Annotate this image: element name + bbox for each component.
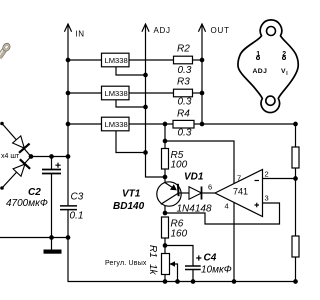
- OUT arrow: [198, 24, 205, 32]
- node ground: [49, 235, 54, 240]
- wire OUT to right rail: [202, 123, 296, 125]
- wire R5 bottom: [164, 169, 166, 183]
- pin2 wire: [263, 178, 296, 180]
- node R3-OUT: [200, 91, 205, 96]
- svg-text:4700мкФ: 4700мкФ: [6, 198, 48, 209]
- inverting input mark: [255, 180, 260, 182]
- node right rail pin2: [293, 176, 298, 181]
- svg-text:2: 2: [265, 170, 269, 179]
- wire R6 bottom: [164, 238, 166, 254]
- wire bridge plus: [2, 124, 31, 189]
- svg-text:0.3: 0.3: [178, 65, 192, 76]
- terminal AC upper: [0, 122, 4, 126]
- regulator U1 LM338: [102, 53, 130, 67]
- node bridge plus: [29, 154, 34, 159]
- svg-text:IN: IN: [76, 30, 85, 39]
- svg-text:R2: R2: [177, 44, 190, 55]
- TO-3 package: [238, 20, 298, 113]
- svg-text:R3: R3: [177, 77, 190, 88]
- svg-text:R1: R1: [147, 245, 158, 258]
- svg-text:10мкФ: 10мкФ: [201, 265, 232, 276]
- wire R2 to OUT: [193, 59, 203, 61]
- svg-text:6: 6: [208, 183, 212, 192]
- node wiper bottom: [175, 279, 180, 284]
- wire U3 adj stub: [116, 131, 146, 153]
- terminal AC lower: [0, 186, 4, 190]
- resistor right lower: [292, 236, 299, 257]
- resistor R4: [173, 120, 194, 128]
- svg-text:C2: C2: [28, 187, 41, 198]
- resistor R2: [174, 56, 193, 64]
- pin3 wire: [165, 203, 280, 224]
- node ADJ-U2: [143, 105, 148, 110]
- node R4-OUT: [200, 122, 205, 127]
- node R2-OUT: [200, 58, 205, 63]
- svg-text:4: 4: [225, 202, 229, 211]
- diode D upper: [11, 135, 29, 153]
- wire opamp V+: [165, 141, 234, 184]
- svg-text:OUT: OUT: [211, 26, 230, 35]
- wire R5 top: [164, 124, 166, 149]
- right rail: [295, 124, 297, 282]
- IN arrow: [64, 24, 71, 32]
- bottom rail: [68, 281, 298, 283]
- wire R4 to OUT: [194, 123, 202, 125]
- svg-text:ADJ: ADJ: [154, 26, 171, 35]
- node R6-R1-C4: [163, 243, 168, 248]
- svg-text:0.3: 0.3: [178, 97, 192, 108]
- svg-text:VD1: VD1: [184, 172, 204, 183]
- svg-text:LM338: LM338: [105, 89, 128, 98]
- wire U2 adj stub: [116, 100, 146, 107]
- svg-text:1k: 1k: [147, 264, 158, 276]
- node C3 bottom: [66, 235, 71, 240]
- node R4 left: [163, 122, 168, 127]
- svg-text:R4: R4: [177, 109, 190, 120]
- node C4 bottom: [191, 279, 196, 284]
- resistor R6: [162, 217, 169, 238]
- op-amp U1 741: [215, 170, 263, 217]
- node IN-U3: [66, 122, 71, 127]
- wire U2 input: [68, 92, 102, 94]
- svg-text:ADJ: ADJ: [253, 68, 268, 75]
- wire base to VD1: [178, 192, 189, 194]
- svg-text:2: 2: [282, 51, 286, 58]
- diode D lower: [12, 159, 30, 177]
- svg-text:C3: C3: [71, 192, 84, 203]
- capacitor C4: [185, 266, 201, 270]
- ground: [51, 238, 53, 250]
- label R1: [147, 245, 158, 258]
- svg-text:VT1: VT1: [122, 189, 141, 200]
- transistor VT1: [157, 182, 181, 206]
- wire U1 output: [129, 59, 174, 61]
- capacitor C2: [51, 157, 53, 170]
- svg-text:100: 100: [171, 160, 188, 171]
- wire to C4: [165, 246, 193, 267]
- node emitter-ADJ: [163, 175, 168, 180]
- svg-text:1: 1: [256, 51, 260, 58]
- wire U3 output: [129, 123, 173, 125]
- wire R3 to OUT: [193, 92, 203, 94]
- svg-text:х4 шт: х4 шт: [1, 153, 20, 160]
- resistor R5: [162, 149, 169, 170]
- node IN-U2: [66, 91, 71, 96]
- value R1 1k: [147, 264, 158, 276]
- resistor right upper: [292, 147, 299, 168]
- svg-text:0.3: 0.3: [178, 128, 192, 139]
- potentiometer R1: [162, 254, 170, 275]
- node R1 bottom: [163, 279, 168, 284]
- node right rail top: [293, 122, 298, 127]
- node ADJ-U3: [143, 150, 148, 155]
- svg-text:LM338: LM338: [105, 120, 128, 129]
- opamp V- wire: [233, 203, 235, 282]
- wire U2 output: [129, 92, 174, 94]
- wire U1 adj stub: [116, 67, 146, 75]
- capacitor C3: [67, 157, 69, 206]
- IN rail: [67, 24, 69, 157]
- regulator U2 LM338: [102, 86, 130, 100]
- non-inverting input mark: [255, 203, 260, 208]
- svg-text:3: 3: [265, 194, 269, 203]
- svg-text:BD140: BD140: [113, 201, 145, 212]
- wire minus bus: [0, 237, 68, 239]
- node right rail bottom: [293, 279, 298, 284]
- node R5 top: [163, 139, 168, 144]
- svg-text:7: 7: [237, 174, 241, 183]
- photo: crimp terminal inset: [0, 42, 12, 62]
- node C3 top / IN bottom: [66, 154, 71, 159]
- wire U3 input: [68, 123, 102, 125]
- svg-text:160: 160: [171, 229, 188, 240]
- node V- rail: [232, 279, 237, 284]
- svg-text:0.1: 0.1: [70, 211, 84, 222]
- svg-text:Регул. Uвых: Регул. Uвых: [105, 260, 147, 267]
- wire VD1 to opamp: [202, 192, 216, 194]
- node collector: [163, 211, 168, 216]
- wire plus bus: [31, 156, 68, 158]
- node C2 top: [49, 154, 54, 159]
- regulator U3 LM338: [102, 117, 130, 131]
- svg-text:V: V: [281, 68, 286, 75]
- ADJ rail: [146, 24, 166, 177]
- diode VD1: [189, 187, 202, 199]
- svg-text:741: 741: [233, 187, 248, 197]
- wire U1 input: [68, 59, 102, 61]
- node IN-U1: [66, 58, 71, 63]
- resistor R3: [174, 89, 193, 97]
- svg-text:LM338: LM338: [105, 56, 128, 65]
- svg-text:C4: C4: [204, 253, 217, 264]
- node ADJ-U1: [143, 73, 148, 78]
- ADJ arrow: [142, 24, 149, 32]
- OUT rail: [201, 24, 203, 124]
